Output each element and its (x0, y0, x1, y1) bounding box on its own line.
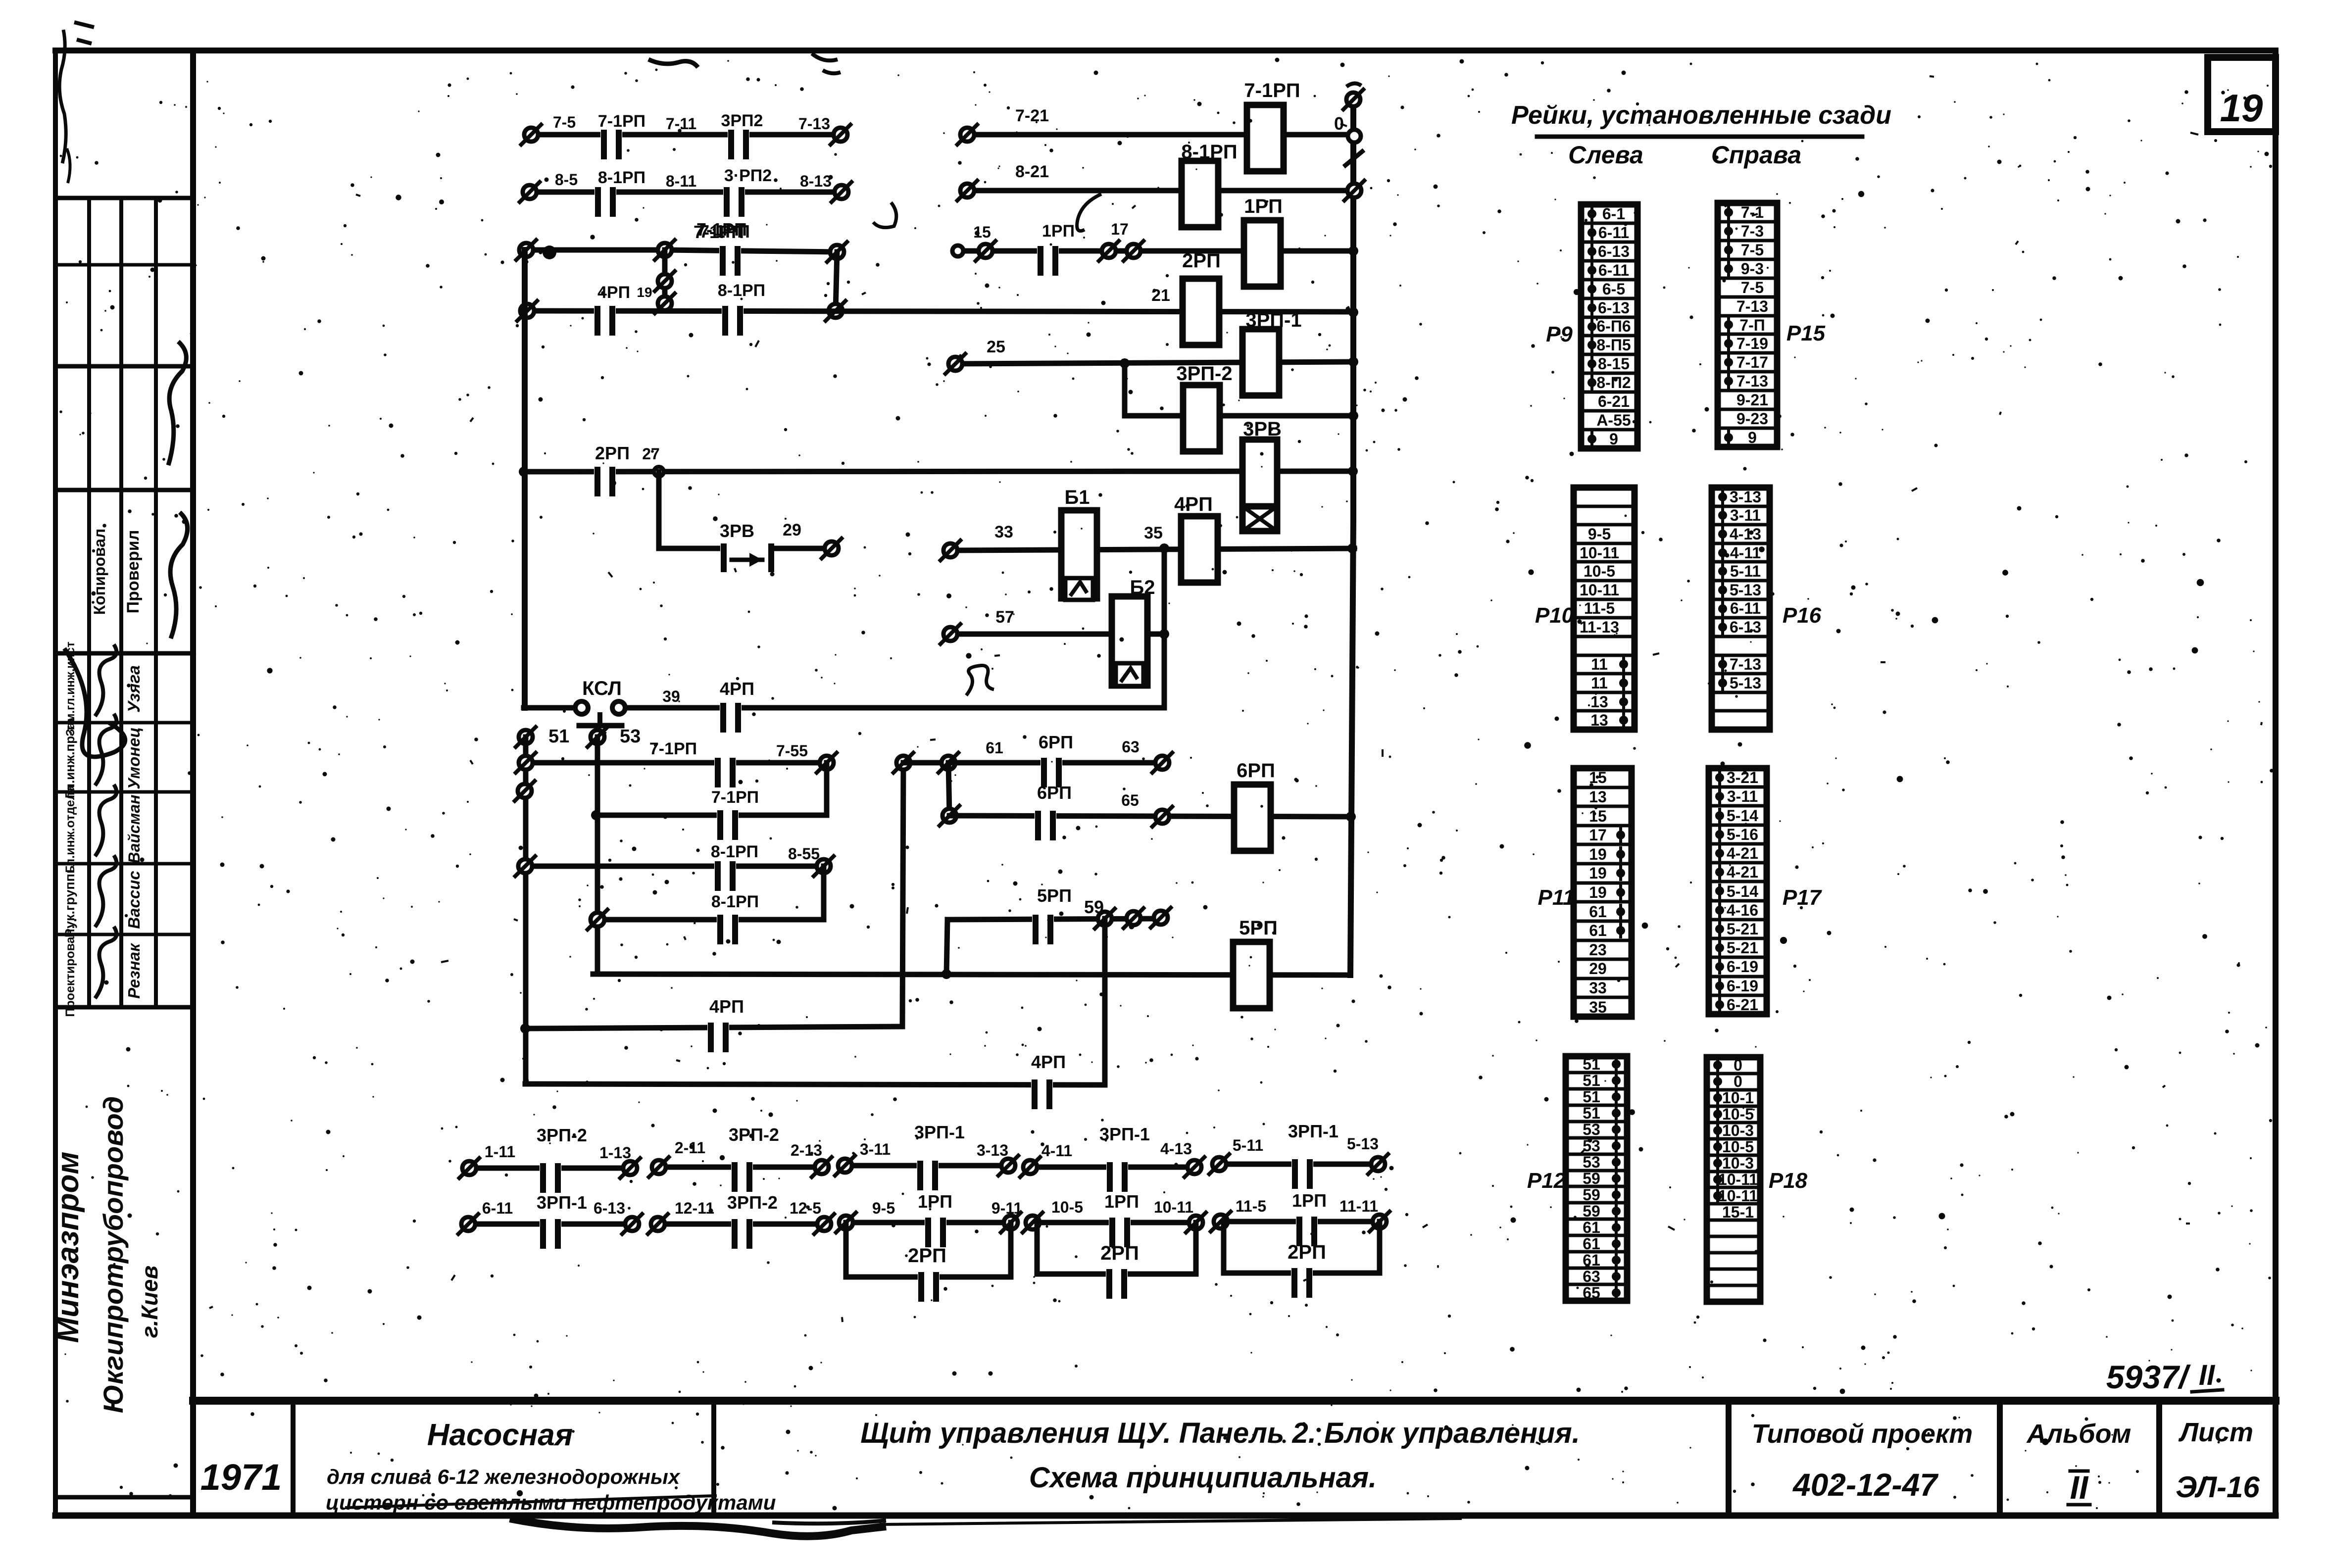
svg-text:61: 61 (1589, 922, 1607, 939)
terminal 7-5 end (524, 128, 538, 142)
svg-text:8-1РП: 8-1РП (1181, 141, 1237, 163)
svg-text:7-17: 7-17 (1736, 353, 1768, 371)
bus junction 3РП-2 (1348, 411, 1358, 421)
terminal 10-5 (1026, 1216, 1040, 1229)
svg-text:4-11: 4-11 (1041, 1142, 1072, 1160)
svg-text:3-21: 3-21 (1727, 769, 1758, 786)
svg-text:61: 61 (986, 739, 1003, 757)
wire rung 7-5/7-13 (531, 132, 841, 138)
wire branch 3РВ stub (659, 546, 832, 551)
svg-text:10-5: 10-5 (1722, 1138, 1754, 1156)
svg-text:6-П6: 6-П6 (1596, 317, 1631, 335)
svg-text:29: 29 (1589, 960, 1607, 978)
wire rung R3 8-55 (525, 864, 824, 869)
svg-text:Альбом: Альбом (2026, 1419, 2131, 1449)
terminal on left vertical mid (658, 274, 672, 288)
terminal 2-13 (815, 1160, 829, 1174)
svg-text:9-5: 9-5 (872, 1199, 895, 1217)
wire feeder A' x=1062 (523, 737, 529, 1084)
svg-text:8-13: 8-13 (800, 172, 832, 190)
svg-text:15: 15 (1589, 807, 1607, 825)
svg-text:7-13: 7-13 (798, 115, 830, 133)
svg-text:53: 53 (1583, 1121, 1600, 1138)
svg-text:II: II (2070, 1469, 2089, 1506)
wire rung 65 (949, 816, 1347, 817)
terminal 8-13 end (835, 185, 848, 199)
contact 4РП on КСЛ rung (720, 704, 742, 712)
svg-text:Узяга: Узяга (125, 665, 144, 713)
svg-text:65: 65 (1583, 1284, 1600, 1302)
svg-text:35: 35 (1144, 524, 1163, 542)
svg-text:6-5: 6-5 (1602, 280, 1625, 298)
signature scribble top (168, 342, 186, 465)
terminal strip Р15 (1718, 203, 1777, 447)
svg-text:3-11: 3-11 (860, 1140, 891, 1158)
svg-text:65: 65 (1121, 791, 1139, 809)
svg-text:Р16: Р16 (1783, 603, 1822, 628)
contact 1РП (1296, 1218, 1318, 1225)
relay coil 1РП (1244, 220, 1281, 287)
wire rung 2-11/2-13 (659, 1165, 822, 1170)
svg-text:6-19: 6-19 (1727, 958, 1758, 976)
svg-text:7-13: 7-13 (1736, 372, 1768, 390)
terminal 4-13 (1188, 1160, 1201, 1174)
terminal strip Р17 (1709, 768, 1767, 1014)
wire bottom rung 4РП (525, 1084, 1105, 1085)
svg-text:3-11: 3-11 (1730, 506, 1761, 524)
svg-text:10-5: 10-5 (1722, 1105, 1754, 1123)
svg-text:для слива 6-12 железнодорожных: для слива 6-12 железнодорожных (327, 1465, 681, 1488)
contact 8-1РП R3 (714, 862, 736, 870)
contact 4РП rung4 (594, 307, 616, 315)
contact 3РП-1 (1106, 1163, 1128, 1171)
contact 8-1РП rung4 (722, 307, 743, 315)
terminal riser top (896, 756, 910, 770)
svg-text:5937/: 5937/ (2106, 1359, 2191, 1395)
terminal 8-21 start (960, 184, 974, 197)
svg-text:61: 61 (1583, 1235, 1600, 1253)
node 0 circle on bus (1348, 130, 1361, 143)
wire rung КСЛ (524, 705, 1164, 711)
svg-text:6РП: 6РП (1037, 783, 1072, 803)
svg-text:Проверил: Проверил (124, 530, 143, 614)
terminal 65 mid (1155, 810, 1169, 824)
svg-text:3РП-2: 3РП-2 (1176, 363, 1232, 385)
svg-text:0: 0 (1734, 1056, 1742, 1074)
svg-text:11-13: 11-13 (1580, 618, 1619, 636)
svg-text:9-3: 9-3 (1741, 260, 1764, 278)
wire rung 1-11/1-13 (469, 1166, 630, 1171)
svg-text:1971: 1971 (200, 1457, 282, 1498)
svg-text:8-1РП: 8-1РП (711, 892, 759, 911)
terminal node A top (526, 247, 665, 253)
terminal loop right bottom (829, 304, 842, 318)
svg-text:6-11: 6-11 (1730, 599, 1761, 617)
terminal 4-11 (1023, 1160, 1037, 1174)
svg-text:1РП: 1РП (1244, 196, 1283, 217)
bus break slash (1345, 151, 1362, 165)
contact 5РП (1032, 916, 1054, 924)
terminal 63 end (1155, 756, 1169, 770)
signature scribble mid (170, 512, 188, 638)
svg-text:Вайсман: Вайсман (125, 794, 143, 863)
svg-text:10-11: 10-11 (1580, 581, 1619, 599)
contact 2РП on box bottom (1291, 1269, 1313, 1277)
wire rung 6-11/6-13 (468, 1222, 632, 1227)
junction on bus A rung5 (519, 467, 529, 477)
svg-text:А-55: А-55 (1596, 411, 1631, 429)
svg-text:7-19: 7-19 (1736, 335, 1768, 352)
time contact 3РВ (720, 544, 772, 552)
svg-text:33: 33 (994, 523, 1013, 541)
svg-text:17: 17 (1111, 220, 1129, 238)
svg-text:6-11: 6-11 (1598, 224, 1629, 242)
terminal 15 (979, 244, 992, 258)
svg-text:1-11: 1-11 (485, 1143, 515, 1161)
wire branch down to 3РП-2 (1122, 363, 1128, 416)
svg-text:51: 51 (548, 726, 569, 747)
svg-text:53: 53 (1583, 1153, 1600, 1171)
svg-text:23: 23 (1589, 941, 1607, 959)
terminal R3 on feeder (518, 859, 532, 873)
wire rung 57 (950, 632, 1164, 637)
svg-text:Минэазпром: Минэазпром (51, 1152, 85, 1343)
terminal 7-21 start (960, 128, 974, 142)
svg-text:10-11: 10-11 (1580, 544, 1619, 562)
terminal rung4 left on bus A (520, 304, 534, 318)
title strip row lines (55, 196, 193, 200)
svg-text:6-1: 6-1 (1602, 205, 1625, 223)
wire branch 27 down (656, 472, 662, 548)
svg-text:61: 61 (1583, 1219, 1600, 1236)
svg-text:10-5: 10-5 (1051, 1198, 1083, 1216)
svg-text:12-11: 12-11 (675, 1199, 714, 1217)
svg-text:402-12-47: 402-12-47 (1792, 1467, 1939, 1503)
wire rung R5 4РП (525, 1027, 902, 1029)
svg-text:5-16: 5-16 (1727, 826, 1758, 843)
svg-text:8-5: 8-5 (555, 171, 578, 189)
terminal 9-5 (839, 1216, 853, 1229)
terminal 3-13 (1001, 1159, 1015, 1173)
svg-text:3РП-1: 3РП-1 (1245, 309, 1301, 331)
svg-text:15-1: 15-1 (1722, 1203, 1754, 1221)
svg-text:4-21: 4-21 (1727, 844, 1758, 862)
wire rung R1 7-55 (526, 760, 827, 766)
terminal 11-11 (1373, 1215, 1387, 1228)
terminal strip Р9 (1581, 204, 1637, 448)
contact 2РП on box bottom (1106, 1270, 1128, 1278)
junction Б2 rung (1159, 629, 1169, 639)
contact 7-1РП R2 (717, 811, 739, 819)
wire 61 drop to 65 (948, 763, 949, 816)
svg-text:29: 29 (783, 521, 801, 539)
ink smudge top area a (648, 59, 698, 67)
signatures scribbles (95, 644, 116, 716)
svg-text:6-13: 6-13 (1598, 299, 1630, 317)
svg-text:3РВ: 3РВ (720, 521, 754, 541)
relay coil 8-1РП (1182, 161, 1218, 227)
svg-text:Схема принципиальная.: Схема принципиальная. (1029, 1462, 1377, 1494)
svg-text:7-5: 7-5 (1741, 279, 1764, 296)
svg-text:8-П2: 8-П2 (1596, 374, 1631, 392)
wire R3-R4 vertical (821, 866, 827, 920)
svg-text:8-15: 8-15 (1598, 355, 1630, 373)
large signature flourish (64, 648, 125, 757)
relay 2РП latch box (1221, 1222, 1227, 1273)
svg-text:51: 51 (1583, 1072, 1600, 1089)
terminal 8-55 corner (817, 859, 831, 873)
terminal 3-11 (838, 1159, 852, 1173)
strike line over subtitle (347, 1496, 715, 1508)
paper edge marks (59, 30, 66, 163)
wire rung R2 (596, 813, 827, 818)
wire riser 59 to bottom rung (1102, 919, 1108, 1085)
svg-text:11-5: 11-5 (1584, 599, 1615, 617)
svg-text:19: 19 (1589, 864, 1607, 882)
svg-text:3РП-2: 3РП-2 (727, 1192, 778, 1213)
terminal R1 on feeder (519, 756, 533, 770)
junction R2 on feeder B (591, 810, 601, 820)
svg-text:7-1РП: 7-1РП (1244, 80, 1300, 101)
svg-text:1РП: 1РП (1292, 1190, 1327, 1211)
svg-text:59: 59 (1583, 1202, 1600, 1220)
pushbutton КСЛ (589, 704, 613, 712)
svg-text:4-13: 4-13 (1160, 1140, 1192, 1158)
contact 3РП-2 (731, 1220, 753, 1228)
relay coil 7-1РП (1247, 105, 1284, 171)
wire R1-R2 vertical (824, 763, 830, 815)
wire bus A vertical (522, 250, 528, 708)
svg-text:8-11: 8-11 (666, 172, 696, 190)
terminal 5-11 (1212, 1157, 1226, 1171)
svg-text:2РП: 2РП (908, 1245, 946, 1267)
svg-text:27: 27 (642, 445, 660, 463)
terminal 9-11 (1004, 1216, 1018, 1229)
bus junction 3РВ (1348, 466, 1358, 476)
svg-text:Насосная: Насосная (427, 1418, 573, 1452)
svg-text:10-11: 10-11 (1154, 1198, 1193, 1216)
contact 3РП-1 (540, 1220, 561, 1228)
contact 3РП2 on rung1 (728, 131, 749, 139)
wire rung 5РП coil (593, 974, 1347, 975)
svg-text:33: 33 (1589, 979, 1607, 997)
svg-text:8-1РП: 8-1РП (711, 842, 758, 861)
svg-text:25: 25 (987, 338, 1005, 356)
ink smudge under title block (510, 1519, 886, 1536)
terminal 29 end (825, 541, 839, 555)
bus junction rung 15 (1348, 246, 1358, 256)
svg-text:10-11: 10-11 (1718, 1187, 1758, 1205)
svg-text:39: 39 (662, 687, 680, 705)
svg-text:59: 59 (1583, 1170, 1600, 1187)
squiggle mark near 57 rung (966, 665, 994, 695)
terminal 12-11 (651, 1217, 665, 1231)
terminal 8-5 end (523, 185, 537, 199)
wire vertical 35 to КСЛ rung (1162, 548, 1167, 708)
contact 3РП-1 (1291, 1160, 1313, 1168)
terminal 1-11 (462, 1161, 476, 1175)
svg-text:Р17: Р17 (1783, 885, 1823, 910)
svg-text:57: 57 (995, 608, 1014, 627)
wire rung 15-17 (958, 248, 1354, 254)
svg-text:1РП: 1РП (1042, 222, 1075, 241)
terminal on left vertical low (658, 296, 672, 310)
wire rung 2РП-27 (524, 471, 1354, 472)
svg-text:3-11: 3-11 (1727, 787, 1758, 805)
svg-text:7-1РП: 7-1РП (711, 788, 759, 807)
svg-text:9-11: 9-11 (991, 1199, 1022, 1217)
svg-text:3РП-1: 3РП-1 (1099, 1124, 1150, 1144)
svg-text:51: 51 (1583, 1055, 1600, 1073)
contact 1РП rung 15 (1037, 247, 1059, 255)
svg-text:7-13: 7-13 (1730, 655, 1761, 673)
svg-text:5-14: 5-14 (1727, 807, 1758, 825)
page number box (2208, 57, 2276, 132)
terminal on feeder A' extra (518, 784, 532, 798)
svg-text:0: 0 (1734, 1073, 1742, 1090)
svg-text:3-13: 3-13 (1730, 488, 1761, 506)
terminal 12-5 (817, 1217, 831, 1231)
terminal loop left top (658, 243, 672, 257)
contact 2РП rung5 (594, 468, 616, 476)
svg-text:11: 11 (1591, 655, 1608, 673)
terminal 57 (943, 627, 957, 641)
terminal 7-55 corner (820, 756, 834, 770)
svg-text:1РП: 1РП (918, 1191, 952, 1212)
svg-text:Справа: Справа (1711, 141, 1801, 169)
contact 3РП-2 (540, 1164, 561, 1172)
junction to 3РП-2 branch (1120, 358, 1130, 368)
wire main right bus (1350, 99, 1356, 520)
relay coil 6РП (1234, 784, 1271, 851)
svg-text:3РП-1: 3РП-1 (1288, 1121, 1338, 1141)
terminal 59 b (1127, 911, 1140, 925)
terminal on bus at 8-21 (1347, 184, 1361, 197)
svg-text:6-21: 6-21 (1598, 392, 1630, 410)
terminal 6-13 (625, 1217, 639, 1231)
terminal strip Р18 (1707, 1057, 1760, 1302)
wire loop left vertical (662, 250, 668, 311)
svg-text:2-13: 2-13 (791, 1141, 822, 1159)
contact 8-1РП R4 (717, 916, 739, 924)
contact 3РП2 on rung2 (723, 188, 745, 196)
svg-text:Р12: Р12 (1527, 1169, 1566, 1193)
block Б2 (1112, 596, 1147, 686)
terminal bus top (1346, 93, 1360, 106)
terminal strip Р11 (1574, 768, 1632, 1017)
terminal 59 c (1154, 911, 1168, 925)
ink smudge top area b (812, 53, 841, 73)
svg-text:10-3: 10-3 (1722, 1122, 1754, 1139)
relay coil 3РВ with time box (1242, 440, 1277, 526)
bus junction 4РП (1347, 543, 1357, 553)
svg-text:7-3: 7-3 (1741, 222, 1764, 240)
contact 3РП-2 (731, 1163, 753, 1171)
relay 2РП latch box (843, 1223, 849, 1277)
svg-text:КСЛ: КСЛ (582, 678, 622, 699)
svg-text:5-21: 5-21 (1727, 920, 1758, 938)
svg-text:35: 35 (1589, 998, 1607, 1016)
svg-text:19: 19 (1589, 883, 1607, 901)
contact 7-1РА top branch (719, 247, 741, 255)
svg-text:5-11: 5-11 (1730, 562, 1761, 580)
svg-text:7-5: 7-5 (1741, 241, 1764, 259)
svg-text:19: 19 (2220, 86, 2263, 130)
terminal 65 start (942, 809, 956, 823)
svg-text:Слева: Слева (1568, 141, 1643, 169)
relay coil 5РП (1233, 942, 1270, 1008)
svg-text:6-13: 6-13 (1598, 243, 1630, 260)
svg-text:10-1: 10-1 (1722, 1089, 1754, 1107)
terminal 6-11 (461, 1217, 475, 1231)
svg-text:8-П5: 8-П5 (1596, 336, 1631, 354)
wire rung 11-5/11-11 (1221, 1219, 1380, 1225)
contact 3РП-1 (917, 1162, 939, 1170)
svg-text:4РП: 4РП (709, 996, 744, 1017)
svg-text:19: 19 (637, 285, 652, 300)
svg-text:12-5: 12-5 (790, 1199, 821, 1217)
wire rung 33 (950, 548, 1354, 550)
contact 8-1РП on rung2 (595, 188, 616, 196)
svg-text:8-1РП: 8-1РП (718, 281, 765, 300)
svg-text:4-13: 4-13 (1730, 525, 1761, 543)
svg-text:9-21: 9-21 (1736, 391, 1768, 409)
svg-text:5-13: 5-13 (1730, 674, 1761, 692)
title strip column lines (87, 198, 91, 1007)
svg-text:5-13: 5-13 (1347, 1135, 1379, 1153)
wire feeder B x=1207 (595, 737, 600, 974)
wire rung 25 (955, 362, 1354, 364)
bus junction 6РП (1346, 812, 1356, 822)
junction R5 on feeder A' (520, 1024, 530, 1033)
terminal 51 (519, 730, 533, 744)
svg-text:63: 63 (1583, 1268, 1600, 1285)
terminal 7-13 end (834, 128, 847, 142)
terminal strip Р12 (1566, 1056, 1627, 1301)
title block top line (193, 1397, 2276, 1405)
wire rung 10-5/10-11 (1033, 1220, 1196, 1225)
svg-text:3·РП2: 3·РП2 (724, 166, 772, 185)
terminal strip Р16 (1712, 488, 1770, 730)
contact 7-1РП on rung1 (600, 131, 622, 139)
svg-text:7-1РП: 7-1РП (694, 222, 744, 242)
svg-text:9: 9 (1609, 430, 1618, 448)
svg-text:Проектировал.: Проектировал. (63, 926, 77, 1017)
svg-text:8-21: 8-21 (1015, 162, 1049, 181)
svg-text:4РП: 4РП (1174, 493, 1213, 515)
svg-text:Лист: Лист (2178, 1418, 2253, 1447)
svg-text:3РП-1: 3РП-1 (537, 1192, 587, 1213)
terminal 10-11 (1189, 1216, 1203, 1229)
wire link to 61 (903, 760, 948, 766)
wire loop top branch 7-1РА (665, 250, 837, 252)
svg-text:8-1РП: 8-1РП (598, 168, 645, 187)
svg-text:51: 51 (1583, 1088, 1600, 1106)
wire riser x=1823 (902, 763, 903, 1027)
svg-text:3РП-1: 3РП-1 (914, 1122, 965, 1142)
title block verticals (291, 1402, 296, 1516)
wire rung 61-63 (948, 760, 1162, 766)
terminal strip Р10 (1574, 488, 1635, 730)
svg-text:9-5: 9-5 (1588, 525, 1611, 543)
svg-text:Б2: Б2 (1130, 577, 1155, 598)
wire rung 4-11/4-13 (1030, 1165, 1194, 1170)
svg-text:1РП: 1РП (1104, 1191, 1139, 1212)
svg-text:13: 13 (1590, 693, 1608, 711)
svg-text:ЭЛ-16: ЭЛ-16 (2176, 1470, 2260, 1504)
wire rung 7-21 (967, 132, 1354, 138)
terminal 53 (591, 730, 604, 744)
